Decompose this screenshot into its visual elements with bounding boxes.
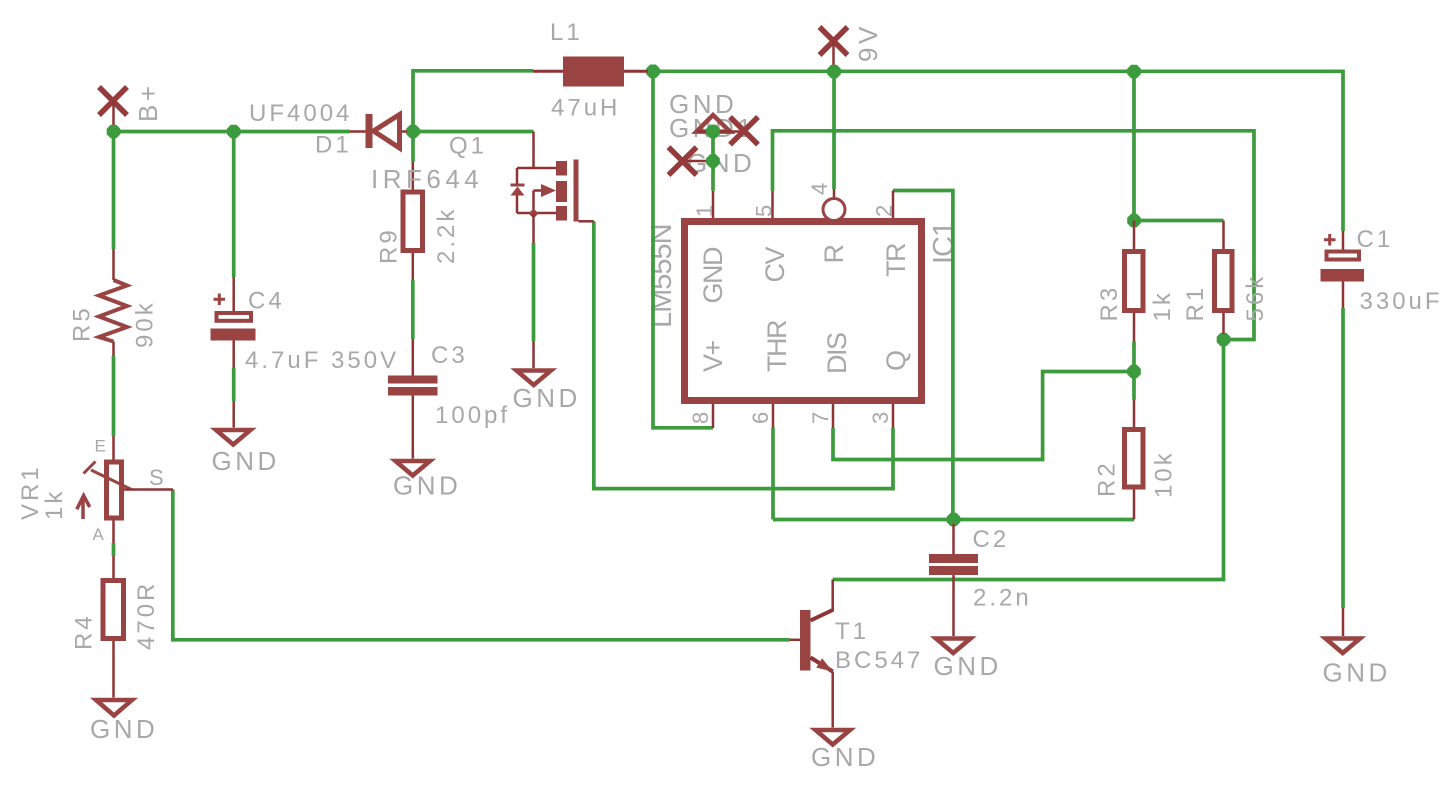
svg-text:THR: THR xyxy=(762,320,792,372)
svg-text:3: 3 xyxy=(868,412,893,424)
pin 7 DIS stub xyxy=(832,404,835,428)
svg-text:B+: B+ xyxy=(133,82,163,122)
label R2 xyxy=(1094,460,1121,497)
resistor R2 10k xyxy=(1125,400,1144,520)
svg-text:CV: CV xyxy=(760,247,790,283)
pin name R xyxy=(819,245,849,264)
svg-text:GND: GND xyxy=(811,742,879,772)
label D1 xyxy=(315,132,352,159)
svg-text:2.2k: 2.2k xyxy=(433,207,460,264)
wire TR pin 2 down right side xyxy=(893,191,953,520)
pin 5 CV stub xyxy=(771,191,774,218)
svg-text:R1: R1 xyxy=(1182,285,1209,322)
svg-text:1: 1 xyxy=(692,205,717,217)
svg-text:DIS: DIS xyxy=(822,333,852,374)
label BC547 xyxy=(835,647,923,674)
svg-text:V+: V+ xyxy=(698,340,728,372)
node junction R3 top xyxy=(1127,214,1141,228)
wire C1 to GND xyxy=(1341,308,1345,608)
pin name THR xyxy=(762,320,792,372)
wire B+ down to R5 xyxy=(112,132,116,250)
svg-text:10k: 10k xyxy=(1151,450,1178,498)
label 4.7uF 350V xyxy=(245,347,399,374)
svg-text:S: S xyxy=(149,465,164,490)
label 56k xyxy=(1242,274,1269,322)
svg-text:E: E xyxy=(95,437,106,456)
pin name TR xyxy=(881,243,911,277)
svg-text:2: 2 xyxy=(872,205,897,217)
resistor R5 90k zigzag xyxy=(99,249,127,356)
wire D1 cathode node up and right to L1 xyxy=(413,71,533,132)
node junction TR THR C2 xyxy=(947,513,961,527)
svg-text:Q1: Q1 xyxy=(449,133,487,160)
pin name DIS xyxy=(822,333,852,374)
svg-text:TR: TR xyxy=(881,243,911,277)
svg-text:GND: GND xyxy=(393,471,461,501)
node junction R1 bottom xyxy=(1217,333,1231,347)
label 1k VR1 xyxy=(41,489,68,520)
svg-text:R: R xyxy=(819,245,849,264)
pin number 3 xyxy=(868,412,893,424)
pin number 8 xyxy=(688,412,713,424)
svg-text:R3: R3 xyxy=(1096,285,1123,322)
wire net B+ horizontal top-left xyxy=(114,130,351,134)
svg-text:D1: D1 xyxy=(315,132,352,159)
node junction B+ xyxy=(107,125,121,139)
svg-text:56k: 56k xyxy=(1242,274,1269,322)
svg-text:C2: C2 xyxy=(973,526,1010,553)
label T1 xyxy=(835,618,869,645)
wire B+ down to C4 xyxy=(232,132,236,278)
svg-text:GND: GND xyxy=(698,247,728,304)
label C3 xyxy=(431,342,468,369)
pin number 4 xyxy=(807,183,832,195)
svg-text:1k: 1k xyxy=(1149,290,1176,321)
pin number 7 xyxy=(808,412,833,424)
wire rail down to R3 xyxy=(1132,71,1136,220)
svg-text:VR1: VR1 xyxy=(17,464,44,520)
wire R9 to C3 xyxy=(411,280,415,339)
label 100pf xyxy=(435,402,510,429)
svg-text:8: 8 xyxy=(688,412,713,424)
pin 6 THR stub xyxy=(772,404,775,428)
pin 2 TR stub xyxy=(892,191,895,219)
label R1 xyxy=(1182,285,1209,322)
ground T1 xyxy=(811,730,879,772)
pin name V+ xyxy=(698,340,728,372)
svg-text:330uF: 330uF xyxy=(1360,288,1443,315)
svg-text:A: A xyxy=(93,525,105,544)
pin 1 GND stub xyxy=(712,191,715,218)
label 1k R3 xyxy=(1149,290,1176,321)
potentiometer VR1 1k xyxy=(77,436,173,578)
svg-text:C1: C1 xyxy=(1357,226,1394,253)
svg-text:GND: GND xyxy=(90,714,158,744)
label GND upper xyxy=(669,89,737,119)
wire Q1 source to GND xyxy=(532,243,536,341)
svg-text:IRF644: IRF644 xyxy=(371,164,483,194)
wire GND flags to IC pin 1 xyxy=(711,131,715,190)
node junction D1 cathode xyxy=(406,125,420,139)
svg-text:R4: R4 xyxy=(71,613,98,650)
label GND lower xyxy=(687,148,755,178)
label C4 xyxy=(248,288,285,315)
svg-text:R5: R5 xyxy=(69,305,96,342)
svg-text:LM555N: LM555N xyxy=(646,224,678,328)
label 10k xyxy=(1151,450,1178,498)
resistor R3 1k xyxy=(1125,221,1144,342)
capacitor C4 polarized xyxy=(211,277,256,368)
wire THR junction row to R2 bottom xyxy=(773,518,1134,522)
svg-text:6: 6 xyxy=(748,412,773,424)
supply pin X lower xyxy=(669,147,697,175)
node junction R3 bottom DIS xyxy=(1127,365,1141,379)
wire C4 to GND xyxy=(232,368,236,401)
svg-text:R2: R2 xyxy=(1094,460,1121,497)
pin label S xyxy=(149,465,164,490)
label 47uH xyxy=(551,95,620,122)
label 2.2n xyxy=(973,585,1032,612)
pin number 1 xyxy=(692,205,717,217)
label 470R xyxy=(133,581,160,650)
pin label A xyxy=(93,525,105,544)
capacitor C3 xyxy=(388,339,438,459)
label Q1 xyxy=(449,133,487,160)
node junction rail R3 xyxy=(1127,65,1141,79)
label 9V xyxy=(853,23,883,62)
pin name GND xyxy=(698,247,728,304)
ground C4 xyxy=(212,401,280,476)
label LM555N xyxy=(646,224,678,328)
capacitor C2 2.2n xyxy=(929,524,978,636)
node junction 9V rail xyxy=(827,65,841,79)
supply pin B+ xyxy=(99,87,127,132)
inductor L1 xyxy=(533,57,648,87)
svg-text:GND: GND xyxy=(934,651,1002,681)
pin name Q xyxy=(881,351,911,371)
wire D1 node right to Q1 drain xyxy=(413,130,534,134)
pin number 2 xyxy=(872,205,897,217)
label UF4004 xyxy=(249,100,352,127)
wire D1 node down to R9 xyxy=(411,132,415,162)
svg-text:90k: 90k xyxy=(132,300,159,348)
wire 9V top rail xyxy=(648,71,1343,231)
wire rail down to IC pin 8 xyxy=(653,71,713,428)
ground C3 xyxy=(393,461,461,501)
node junction GND flag lower xyxy=(706,154,720,168)
label R5 xyxy=(69,305,96,342)
svg-text:BC547: BC547 xyxy=(835,647,923,674)
label 330uF xyxy=(1360,288,1443,315)
label R9 xyxy=(376,227,403,264)
pin number 5 xyxy=(752,205,777,217)
svg-text:T1: T1 xyxy=(835,618,869,645)
label 90k xyxy=(132,300,159,348)
label IC1 xyxy=(928,222,960,264)
wire DIS pin 7 to R3-R2 node xyxy=(833,372,1134,460)
svg-text:7: 7 xyxy=(808,412,833,424)
label 2.2k xyxy=(433,207,460,264)
wire Q pin 3 to Q1 gate xyxy=(594,221,893,488)
ground R4 xyxy=(90,700,158,744)
resistor R4 470R xyxy=(103,581,124,698)
node junction GND flag upper xyxy=(706,125,720,139)
supply pin 9V xyxy=(820,27,848,72)
pin label E xyxy=(95,437,106,456)
svg-text:R9: R9 xyxy=(376,227,403,264)
ground flag cluster above IC pin 1 xyxy=(684,115,744,161)
svg-text:9V: 9V xyxy=(853,23,883,62)
svg-text:4.7uF 350V: 4.7uF 350V xyxy=(245,347,399,374)
svg-text:GND: GND xyxy=(212,446,280,476)
label VR1 xyxy=(17,464,44,520)
wire VR1 to R4 xyxy=(112,543,116,556)
label B+ xyxy=(133,82,163,122)
wire R5 to VR1 xyxy=(112,356,116,436)
wire CV pin 5 to R1 bottom xyxy=(773,131,1255,340)
svg-text:GND: GND xyxy=(513,383,581,413)
pin name CV xyxy=(760,247,790,283)
svg-text:GND: GND xyxy=(1323,658,1391,688)
svg-text:100pf: 100pf xyxy=(435,402,510,429)
svg-text:UF4004: UF4004 xyxy=(249,100,352,127)
svg-text:470R: 470R xyxy=(133,581,160,650)
label C1 xyxy=(1357,226,1394,253)
pin 8 V+ stub xyxy=(712,404,715,428)
label R3 xyxy=(1096,285,1123,322)
wire VR1 wiper to T1 base xyxy=(173,490,790,640)
svg-text:IC1: IC1 xyxy=(928,222,960,264)
wire R3 top node to R1 top xyxy=(1134,219,1224,223)
capacitor C1 330uF xyxy=(1321,231,1365,308)
resistor R1 56k xyxy=(1215,221,1233,335)
svg-text:Q: Q xyxy=(881,351,911,371)
wire THR pin 6 down xyxy=(771,428,775,520)
svg-text:C3: C3 xyxy=(431,342,468,369)
ground C1 xyxy=(1323,608,1391,688)
svg-text:2.2n: 2.2n xyxy=(973,585,1032,612)
svg-text:5: 5 xyxy=(752,205,777,217)
label L1 xyxy=(550,19,583,46)
wire R3 bottom to R2 top xyxy=(1132,342,1136,400)
pin 4 R stub with bubble xyxy=(823,189,845,221)
ground C2 xyxy=(934,639,1002,682)
node junction C4 top xyxy=(227,125,241,139)
svg-text:4: 4 xyxy=(807,183,832,195)
svg-text:C4: C4 xyxy=(248,288,285,315)
svg-text:1k: 1k xyxy=(41,489,68,520)
op-amp IC1 LM555N box xyxy=(685,222,922,401)
wire 9V pin down to rail xyxy=(832,71,836,189)
svg-text:47uH: 47uH xyxy=(551,95,620,122)
label GND1 xyxy=(669,113,755,143)
ground Q1 source xyxy=(513,341,581,413)
node junction L1 right xyxy=(646,65,660,79)
diode D1 UF4004 xyxy=(350,114,407,148)
wire T1 collector to R1 bottom xyxy=(833,340,1224,580)
transistor Q1 IRF644 MOSFET xyxy=(511,132,594,244)
label C2 xyxy=(973,526,1010,553)
transistor T1 BC547 xyxy=(790,580,833,728)
resistor R9 2.2k xyxy=(403,162,423,281)
pin 3 Q stub xyxy=(892,404,895,428)
supply pin X upper xyxy=(730,117,758,145)
label R4 xyxy=(71,613,98,650)
svg-text:L1: L1 xyxy=(550,19,583,46)
pin number 6 xyxy=(748,412,773,424)
label IRF644 xyxy=(371,164,483,194)
